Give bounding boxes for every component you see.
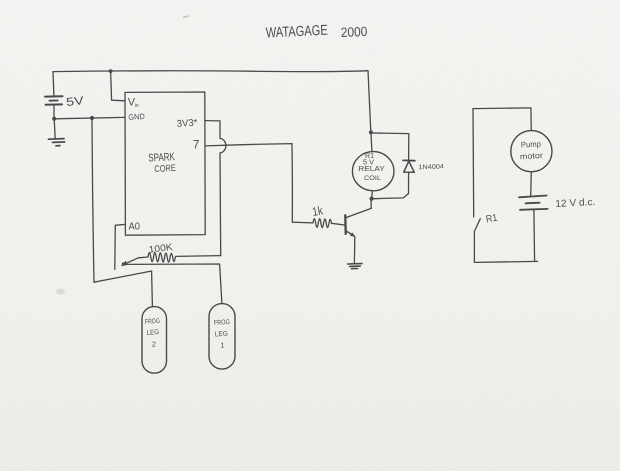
wire 100K right lead [176,255,221,258]
svg-text:1: 1 [220,341,224,350]
svg-text:3V3*: 3V3* [176,118,197,130]
wire relay coil bottom [371,191,374,198]
ground emitter [348,264,362,269]
resistor R2 1k [313,219,331,228]
wire GND to Spark Core [54,117,125,118]
wire relay top to diode [371,133,409,160]
relay R1 coil circle [352,152,394,191]
label FROG LEG 2 [145,318,160,349]
op-amp U1 Spark Core box [125,92,205,235]
wire top +5V rail from battery to relay [53,70,368,73]
battery B1 5V [45,96,63,119]
svg-text:7: 7 [193,137,200,151]
wire battery to bottom rail [533,210,536,261]
svg-text:CORE: CORE [154,163,176,175]
svg-text:LEG: LEG [215,331,228,339]
pin Vin label [128,97,139,109]
node GND branch junction [90,116,94,120]
svg-text:LEG: LEG [146,329,159,337]
node Vin junction dot [109,69,113,73]
wire junction to relay coil top [370,133,373,152]
wire motor to battery [530,172,533,196]
wire top to motor [530,108,532,131]
wire pump circuit top [473,107,531,110]
wire switch to bottom rail [473,231,475,262]
node A0 junction arrow [121,261,128,267]
stray smudge [56,289,65,295]
diode D1 1N4004 [403,160,415,193]
wire hop over pin7 wire [220,138,226,153]
svg-text:GND: GND [128,112,145,122]
wire battery negative to ground [54,119,55,139]
svg-text:WATAGAGE: WATAGAGE [265,23,328,42]
svg-text:FROG: FROG [214,319,230,327]
wire pin7 to transistor base resistor [205,144,313,223]
node GND junction at battery [52,117,56,121]
wire Vin drop into Spark Core [111,71,125,101]
svg-text:FROG: FROG [145,318,160,326]
wire 100K left lead with arrow [125,257,148,264]
stray pen dash [184,16,189,18]
node relay top junction [369,130,373,134]
wire pump circuit left down to switch [472,109,475,217]
svg-text:motor: motor [520,151,544,161]
wire 3V3 down to 100K [219,153,222,256]
wire frog leg 2 drop [151,271,154,307]
wire 1k to base [332,223,345,225]
wire rail bend down to relay top node [368,71,371,132]
battery B2 12V [519,196,548,210]
svg-text:2: 2 [152,340,156,349]
svg-text:12 V d.c.: 12 V d.c. [555,197,596,210]
wire battery positive drop [52,72,55,96]
wire GND branch down to frog leg 2 [92,118,94,282]
svg-text:Pump: Pump [521,139,542,149]
svg-text:2000: 2000 [340,24,367,40]
wire A0 out of Spark Core down [115,224,125,269]
label R1 5V RELAY COIL [358,153,385,182]
svg-text:in: in [135,103,139,109]
motor M1 pump motor circle [511,131,552,172]
node relay bottom junction [370,197,374,201]
label Pump motor [520,139,544,161]
title WATAGAGE 2000 [265,23,367,42]
frog leg 1 probe [209,304,235,370]
svg-text:1N4004: 1N4004 [418,163,444,171]
ground battery [48,139,64,146]
svg-text:A0: A0 [129,221,141,233]
wire 3V3 out and down with hop [205,121,220,139]
wire diode bottom to relay bottom node [374,194,409,199]
frog leg 2 probe [142,307,167,374]
resistor R3 100K [148,253,175,263]
svg-text:RELAY: RELAY [358,164,385,173]
switch R1 contact blade [475,219,481,231]
svg-text:5V: 5V [66,95,85,109]
svg-text:COIL: COIL [364,175,381,182]
wire pump circuit bottom [474,261,537,262]
wire A0 node to frog leg 1 [124,264,222,304]
wire diagonal to frog leg 2 [94,271,152,282]
svg-text:R1: R1 [485,213,499,226]
transistor Q1 [345,199,371,263]
label FROG LEG 1 [214,319,230,350]
